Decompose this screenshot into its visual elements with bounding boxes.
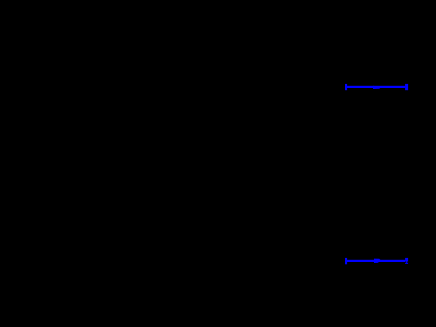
wire [347,86,405,88]
wire [347,260,405,262]
right terminal stem [406,261,407,263]
bottom blue current arrow I2 [345,258,408,264]
left terminal bar [345,258,347,264]
arrowhead [374,259,381,263]
arrowhead [373,86,381,89]
right terminal bar [405,84,408,90]
right terminal bar (T-foot shape) [405,258,408,262]
right terminal foot [405,263,408,264]
top blue current arrow I1 [345,84,408,90]
left terminal bar [345,84,347,90]
